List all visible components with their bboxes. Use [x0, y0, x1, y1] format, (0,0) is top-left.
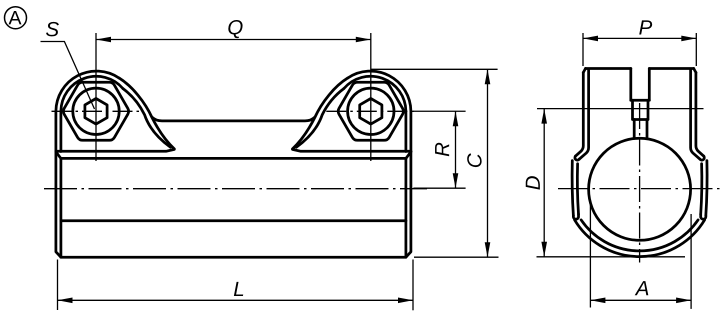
legs top edge — [586, 67, 694, 70]
right hump strap cut edge — [296, 89, 344, 148]
left hump outer arc — [56, 71, 119, 151]
bottom band inner arc — [581, 220, 698, 251]
saddle line between bosses — [152, 117, 314, 121]
screw 1 head circle — [73, 88, 119, 134]
view marker circle A — [5, 7, 27, 29]
slot stage2 right edge — [647, 100, 650, 119]
dimension Q — [96, 39, 371, 41]
screw 1 outer hex — [63, 82, 128, 140]
leader S — [41, 42, 95, 110]
right leg end cap — [700, 156, 704, 160]
dimension R — [413, 111, 465, 188]
body top chamfer diagonals — [56, 152, 411, 159]
strap bottom line left segment — [56, 149, 174, 151]
right side band outer line — [706, 161, 707, 216]
screw 2 vertical centerline / Q extension — [370, 33, 372, 161]
centerlines left view — [44, 33, 427, 189]
left side band inner line — [577, 164, 578, 214]
label P — [639, 20, 652, 34]
right leg outer line with flare — [696, 73, 704, 157]
screw 1 socket hex — [85, 99, 107, 125]
body line y=158 — [61, 157, 406, 160]
screw 1 vertical centerline / Q extension — [95, 33, 97, 161]
left leg outer line with flare — [575, 73, 583, 157]
dimension D — [537, 109, 704, 257]
slit right edge — [648, 69, 651, 101]
left hump inner arc — [61, 76, 123, 151]
left side band outer line — [572, 161, 573, 216]
label S — [46, 22, 59, 37]
right hump outer arc — [348, 71, 411, 151]
right hump strap outer tail edge — [293, 78, 348, 149]
label R — [435, 143, 449, 157]
centerlines right view — [558, 103, 723, 263]
screw 2 head circle — [348, 88, 394, 134]
body line y=221 — [61, 219, 406, 222]
leg outer corners chamfer — [583, 69, 696, 73]
screw 2 horizontal centerline — [326, 110, 415, 112]
main axis centerline — [44, 188, 427, 190]
left hump strap cut edge — [123, 89, 171, 148]
right leg inner line with flare — [691, 69, 700, 159]
label L — [234, 282, 243, 296]
vertical centerline — [639, 103, 641, 263]
left hump strap outer tail edge — [119, 78, 174, 149]
horizontal centerline — [558, 188, 723, 190]
right side band bottom cap — [701, 214, 706, 219]
label D — [526, 176, 540, 190]
left leg inner line with flare — [579, 69, 588, 159]
label Q — [228, 20, 242, 38]
body inner vertical right — [405, 158, 408, 257]
bottom band outer arc — [575, 220, 705, 257]
right side band inner line — [701, 164, 702, 214]
screw 2 socket hex — [360, 99, 382, 125]
label C — [467, 153, 482, 167]
left side band bottom cap — [573, 214, 578, 219]
dimension L — [58, 260, 414, 311]
body inner vertical left — [60, 158, 63, 257]
slit left edge — [629, 69, 632, 101]
slot stage3 left edge — [633, 120, 636, 139]
dimension A — [590, 205, 691, 309]
slot stage2 left edge — [631, 100, 634, 119]
dimension P — [583, 33, 696, 66]
screw 2 outer hex — [338, 82, 403, 140]
strap bottom line right segment — [293, 149, 411, 151]
left leg end cap — [575, 156, 579, 160]
dimension C — [371, 69, 499, 257]
slot stage3 right edge — [646, 120, 649, 139]
slit step line 2 — [634, 118, 648, 121]
label A — [635, 281, 649, 295]
screw 1 horizontal centerline — [52, 110, 142, 112]
slit step line 1 — [631, 99, 650, 102]
right hump inner arc — [344, 76, 406, 151]
body outline left view — [56, 152, 411, 258]
bore circle — [589, 138, 691, 240]
